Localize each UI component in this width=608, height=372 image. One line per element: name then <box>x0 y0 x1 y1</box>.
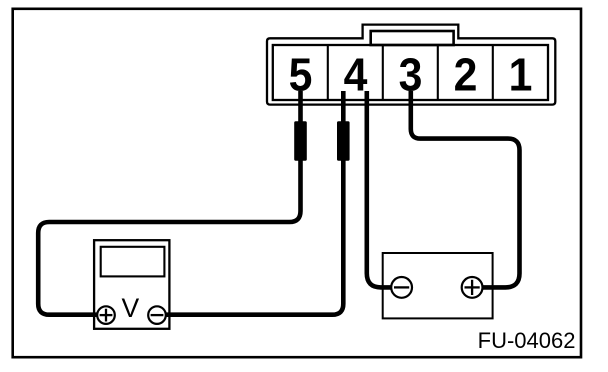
svg-text:4: 4 <box>344 50 368 101</box>
svg-text:FU-04062: FU-04062 <box>478 328 576 353</box>
svg-text:2: 2 <box>454 50 478 101</box>
svg-text:V: V <box>122 293 140 323</box>
svg-text:1: 1 <box>509 50 533 101</box>
